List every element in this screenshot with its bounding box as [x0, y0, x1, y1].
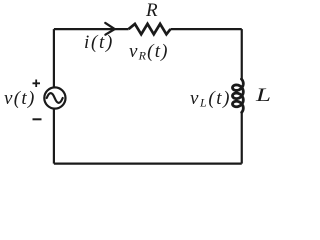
label L: [256, 85, 271, 107]
wire right lower segment: [241, 112, 243, 164]
wire bottom segment: [54, 163, 242, 165]
plus sign polarity: [33, 80, 41, 88]
label vL(t): [190, 88, 231, 111]
wire left lower segment: [53, 109, 55, 164]
wire top-left segment: [54, 28, 129, 30]
voltage source V1 circle: [44, 87, 65, 108]
wire left upper segment: [53, 29, 55, 87]
resistor R1 zigzag: [129, 24, 171, 34]
arrowhead current direction: [105, 23, 114, 35]
label R: [146, 0, 158, 22]
label v(t): [4, 88, 36, 110]
sine wave inside source: [47, 93, 63, 103]
wire right upper segment: [241, 29, 243, 79]
label i(t): [84, 32, 114, 54]
label vR(t): [129, 41, 169, 64]
minus sign polarity: [33, 118, 42, 120]
inductor L1 coil: [233, 79, 244, 112]
wire top-right segment: [171, 28, 242, 30]
